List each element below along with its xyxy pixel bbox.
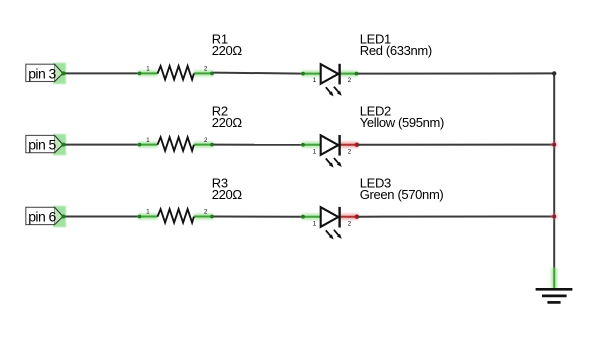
svg-text:2: 2 <box>348 78 352 84</box>
svg-text:2: 2 <box>348 221 352 227</box>
wire R2 to LED2 <box>214 144 304 146</box>
ground GND <box>536 268 573 302</box>
wire pin3 to R1 <box>63 72 139 74</box>
svg-text:Green (570nm): Green (570nm) <box>360 187 444 202</box>
svg-text:Red (633nm): Red (633nm) <box>360 43 432 58</box>
label R3 220Ω <box>212 175 243 202</box>
pin header label "pin 5" <box>26 135 63 152</box>
resistor R1 <box>138 66 214 80</box>
svg-text:220Ω: 220Ω <box>212 115 243 130</box>
label LED1 Red (633nm) <box>360 31 432 58</box>
wire R1 to LED1 <box>214 73 304 74</box>
node pin3 terminal highlight <box>53 63 66 84</box>
LED3 <box>301 207 359 240</box>
svg-text:2: 2 <box>348 149 352 155</box>
wire R3 to LED3 <box>214 216 304 218</box>
svg-text:1: 1 <box>313 221 317 227</box>
LED2 <box>301 135 359 168</box>
svg-text:220Ω: 220Ω <box>212 43 243 58</box>
svg-text:pin 5: pin 5 <box>28 137 56 153</box>
svg-text:220Ω: 220Ω <box>212 187 243 202</box>
wire LED1 to bus <box>358 72 554 74</box>
wire LED2 to bus <box>358 144 554 146</box>
pin header label "pin 3" <box>26 64 63 81</box>
svg-text:1: 1 <box>313 78 317 84</box>
node pin3-wire junction dot <box>61 71 65 75</box>
resistor R2 <box>138 137 214 151</box>
LED1 <box>301 64 358 97</box>
node pin6 terminal highlight <box>53 206 66 227</box>
node bus-LED3 junction (red) <box>551 213 557 219</box>
svg-text:Yellow (595nm): Yellow (595nm) <box>360 115 444 130</box>
svg-text:1: 1 <box>313 149 317 155</box>
node bus-LED2 junction (red) <box>551 141 557 147</box>
svg-text:pin 3: pin 3 <box>28 66 56 82</box>
label R2 220Ω <box>212 103 243 130</box>
wire LED3 to bus <box>358 216 554 218</box>
node pin6-wire junction dot <box>61 215 65 219</box>
svg-text:pin 6: pin 6 <box>28 209 56 225</box>
node pin5-wire junction dot <box>61 143 65 147</box>
resistor R3 <box>138 209 214 223</box>
label R1 220Ω <box>212 31 243 58</box>
wire pin5 to R2 <box>63 144 139 146</box>
node pin5 terminal highlight <box>53 134 66 155</box>
label LED3 Green (570nm) <box>360 175 444 202</box>
label LED2 Yellow (595nm) <box>360 103 444 130</box>
node bus top corner dot <box>552 71 556 75</box>
wire pin6 to R3 <box>63 216 139 218</box>
pin header label "pin 6" <box>26 207 63 224</box>
wire ground bus vertical <box>553 73 555 268</box>
